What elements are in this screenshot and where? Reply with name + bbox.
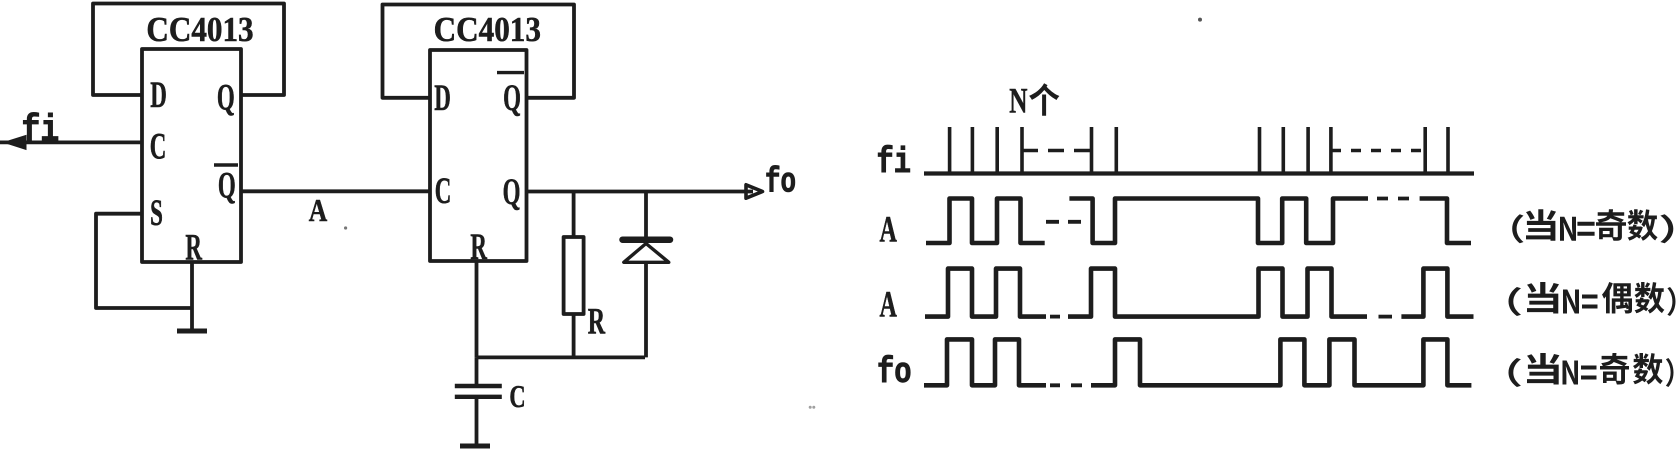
svg-text:Q: Q xyxy=(218,165,236,206)
wire Q-bar overline U1 xyxy=(214,163,238,166)
svg-text:Q: Q xyxy=(217,77,235,118)
speck xyxy=(809,406,812,409)
svg-text:A: A xyxy=(880,208,898,250)
svg-text:fo: fo xyxy=(877,352,912,393)
diode D1 lead bottom xyxy=(644,263,648,357)
svg-text:CC4013: CC4013 xyxy=(146,10,253,49)
svg-text:A: A xyxy=(880,283,898,325)
resistor R body xyxy=(564,237,584,314)
waveform A odd xyxy=(926,199,1471,244)
speck xyxy=(812,406,815,409)
svg-text:C: C xyxy=(509,378,525,414)
svg-text:fi: fi xyxy=(877,142,912,183)
diode D1 lead top xyxy=(644,192,648,238)
label ge (pulse count arrow) xyxy=(1029,83,1059,115)
speck xyxy=(344,226,347,229)
waveform A even xyxy=(925,269,1474,317)
svg-text:fo: fo xyxy=(765,163,796,203)
wire RC net horizontal xyxy=(477,355,646,359)
capacitor C lead top xyxy=(475,357,479,386)
svg-text:Q: Q xyxy=(503,172,521,213)
svg-text:D: D xyxy=(434,78,451,119)
wire R pin U2 down xyxy=(475,261,479,357)
flip-flop U1 CC4013 body xyxy=(142,49,241,262)
svg-text:Q: Q xyxy=(503,78,521,119)
svg-text:R: R xyxy=(470,227,487,268)
wire Q-bar overline U2 xyxy=(497,71,524,74)
label (when N = odd) row A xyxy=(1512,209,1673,243)
waveform fo xyxy=(924,339,1471,385)
arrow fo output xyxy=(746,185,763,198)
arrow fi input xyxy=(4,135,26,149)
speck xyxy=(1198,18,1202,22)
wire S pin loop to R net xyxy=(96,214,192,308)
flip-flop U2 CC4013 body xyxy=(430,50,527,261)
wire fo output from U2 Q xyxy=(527,190,754,194)
wire dashed continuation fi group1 xyxy=(1022,149,1091,153)
svg-text:S: S xyxy=(150,193,163,234)
waveform fi baseline xyxy=(924,171,1474,175)
wire feedback loop U2 (Qbar to D) xyxy=(383,5,575,98)
svg-text:N: N xyxy=(1009,80,1028,121)
svg-text:R: R xyxy=(185,227,202,268)
svg-text:D: D xyxy=(150,75,167,116)
ground capacitor xyxy=(460,444,490,449)
svg-text:fi: fi xyxy=(22,110,60,152)
wire node A: U1 Qbar to U2 C xyxy=(241,189,430,193)
wire R pin U1 down to ground xyxy=(190,262,194,329)
diode D1 triangle xyxy=(624,244,669,263)
capacitor C lead bottom xyxy=(475,397,479,444)
svg-text:C: C xyxy=(435,171,452,212)
waveform fi pulse spikes xyxy=(950,127,1448,173)
svg-text:R: R xyxy=(588,300,606,342)
resistor R leads xyxy=(572,192,576,358)
label (when N = odd) row fo xyxy=(1509,353,1674,387)
label (when N = even) row A2 xyxy=(1509,282,1676,316)
svg-text:A: A xyxy=(309,193,328,228)
svg-text:CC4013: CC4013 xyxy=(434,10,541,49)
capacitor C plates xyxy=(455,386,502,397)
wire fi input to C pin of U1 xyxy=(0,140,142,144)
ground U1 R xyxy=(177,329,207,334)
diode D1 cathode bar xyxy=(623,236,671,243)
wire feedback loop U1 (Q to D) xyxy=(93,4,284,96)
wire dashed continuation fi group2 xyxy=(1331,149,1425,153)
svg-text:C: C xyxy=(150,126,167,167)
